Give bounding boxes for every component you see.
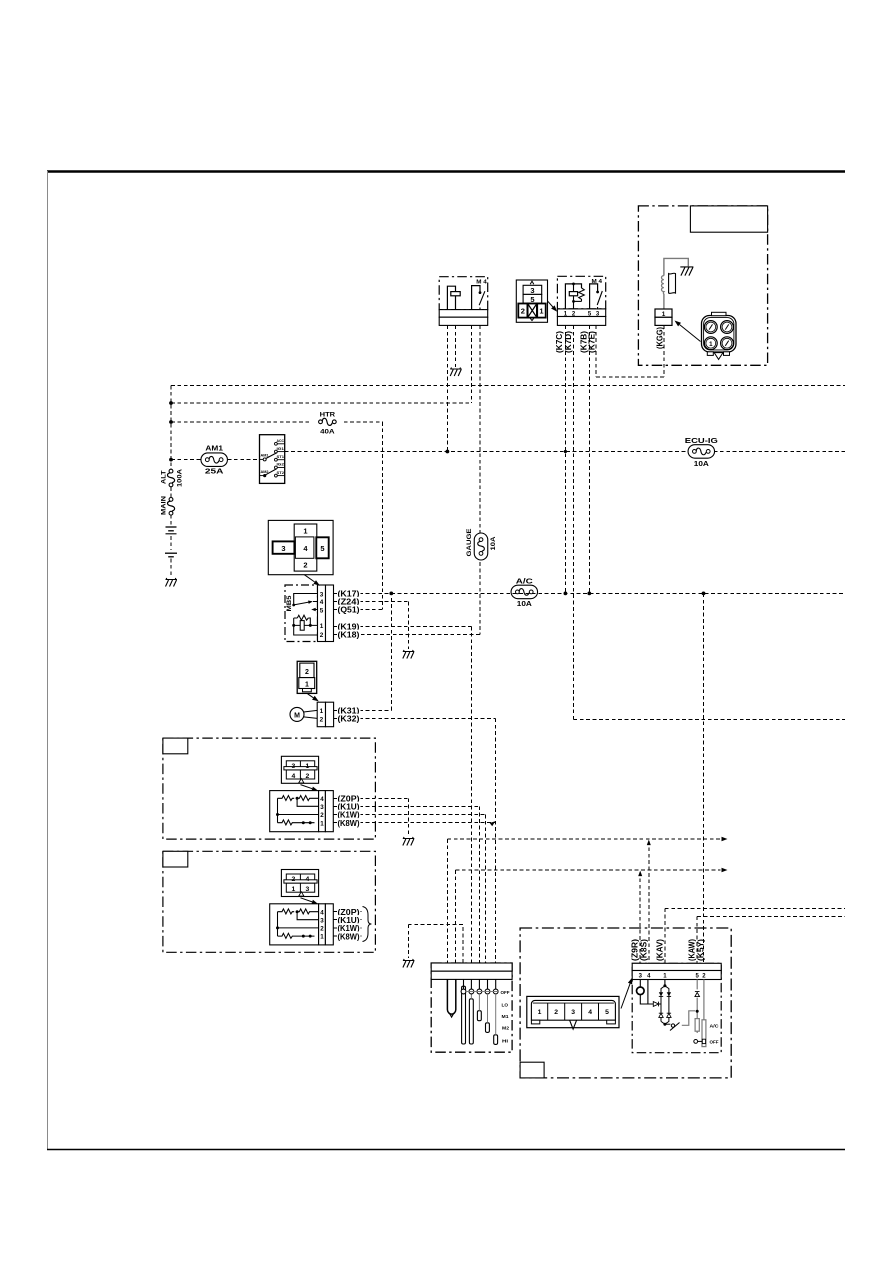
svg-text:2: 2: [320, 632, 324, 639]
blower resistor elements: [278, 909, 295, 914]
ground igniter: [680, 267, 693, 276]
ignition switch terminals: [275, 442, 278, 445]
blower resistor elements: [278, 796, 295, 801]
connector J2 body: [268, 520, 333, 574]
blower resistor icon arrow: [301, 785, 313, 789]
junction arrow pin4 riser: [648, 841, 650, 963]
wire AM1 feed y=459.6: [171, 459, 260, 461]
page frame top border: [47, 170, 845, 172]
label Q51: [337, 605, 361, 614]
svg-text:3: 3: [320, 591, 324, 598]
blower resistor box corner tab: [163, 738, 188, 754]
wire IG1 output y=451.5: [285, 451, 845, 453]
relay M4 right switch contact: [590, 284, 598, 309]
label K8W: [337, 818, 361, 827]
fuse AM1 25A: [201, 453, 228, 467]
ground blower switch: [403, 959, 415, 968]
connector J1 body: [516, 280, 547, 322]
label K19: [337, 622, 361, 631]
label K8W resistor2: [337, 932, 361, 941]
wire Z0P resistor1 pin4 to ground: [334, 798, 409, 836]
svg-text:3: 3: [306, 886, 310, 893]
connector J2 arrow to MB5: [304, 575, 314, 582]
svg-text:3: 3: [530, 286, 534, 295]
svg-text:(K32): (K32): [338, 714, 360, 724]
label K1U: [337, 802, 361, 811]
wire K18 MB5 pin2: [334, 633, 341, 635]
svg-text:2: 2: [306, 773, 310, 780]
panel A/C switch: [703, 980, 705, 1020]
wire battery link dashes: [170, 536, 172, 577]
connector J2 cell 5: [316, 537, 328, 558]
relay M4 right pin bar: [557, 309, 605, 317]
svg-text:(K7D): (K7D): [563, 331, 573, 353]
blower switch box: [431, 963, 512, 1052]
svg-text:4: 4: [320, 796, 324, 803]
A/C control panel bar: [632, 963, 721, 970]
svg-text:1: 1: [320, 820, 324, 827]
wire Q51 MB5 pin5: [334, 609, 383, 611]
connector J3 arrow to clutch: [308, 694, 314, 698]
fuse GAUGE 10A: [474, 533, 488, 560]
svg-text:4: 4: [320, 909, 324, 916]
junction arrow pin3 riser: [639, 872, 641, 963]
clutch pin block: [317, 702, 325, 727]
wire blower OFF-a to A/C panel pin4 and offpage arrow: [447, 838, 720, 840]
relay M4 left pin bar: [439, 310, 488, 318]
svg-text:3: 3: [281, 544, 285, 553]
svg-text:5: 5: [605, 1009, 609, 1016]
svg-text:ACC: ACC: [277, 439, 285, 443]
label K17: [337, 589, 361, 598]
wire relay-left pin1 to IG1 line: [446, 325, 448, 451]
svg-text:LO: LO: [502, 1002, 509, 1007]
svg-text:25A: 25A: [205, 469, 224, 476]
svg-text:2: 2: [320, 926, 324, 933]
svg-text:IG2: IG2: [277, 463, 285, 467]
relay MB5 box: [285, 585, 318, 642]
wire K5Y to A/C panel pin2: [703, 593, 705, 963]
blower switch connector bar: [431, 963, 512, 971]
connector J1 top caret: [530, 281, 534, 284]
wire K7E relay pin3 to igniter KGG: [596, 325, 664, 377]
label K31: [337, 706, 361, 715]
svg-text:(KGG): (KGG): [655, 327, 665, 349]
relay MB5 coil capacitor: [294, 618, 311, 625]
blower resistor element box: [270, 791, 319, 832]
wire Z24 MB5 pin4 to ground: [334, 602, 409, 650]
A/C control panel box: [632, 963, 721, 1052]
junction dot x=565.4 y=451.5: [564, 450, 567, 453]
wire KAV A/C panel pin1 to right edge: [665, 908, 845, 963]
connector J4 5-pin body: [527, 996, 619, 1027]
noise filter core: [669, 273, 676, 293]
connector J1 cell X: [528, 304, 537, 318]
ignition switch arm AM1-IG1: [266, 453, 277, 459]
svg-text:ALT: ALT: [161, 471, 168, 485]
wire K7B relay pin5 to A/C line: [588, 325, 590, 593]
arrow K8W junction: [490, 821, 496, 826]
blower switch finger LO: [469, 999, 473, 1044]
connector J1 bottom caret: [530, 318, 534, 321]
blower switch finger M1: [477, 1011, 481, 1021]
connector J1 arrow to relay: [548, 301, 553, 307]
svg-text:4: 4: [588, 1009, 592, 1016]
connector J3 body: [297, 661, 317, 693]
fusible link MAIN: [169, 498, 173, 502]
svg-text:ST2: ST2: [277, 471, 285, 475]
fuse ECU-IG 10A: [688, 445, 715, 459]
svg-text:AM1: AM1: [205, 446, 223, 453]
svg-text:2: 2: [305, 669, 309, 676]
ground Z24: [403, 650, 415, 659]
label K32: [337, 714, 361, 723]
svg-text:1: 1: [538, 1009, 542, 1016]
wire K1W resistor2 stub: [334, 927, 362, 929]
svg-text:HI: HI: [502, 1038, 508, 1043]
igniter box: [638, 206, 767, 365]
junction dot A/C-K5Y: [702, 592, 706, 596]
svg-text:1: 1: [709, 341, 713, 348]
blower switch wiper loop: [447, 979, 455, 1014]
wire K1W resistor1 pin2 to blower switch: [334, 815, 486, 964]
page frame bottom border: [47, 1149, 845, 1151]
wire KGG connector to box edge: [663, 325, 665, 377]
svg-text:(K8S): (K8S): [638, 939, 648, 961]
relay M4 left coil element: [447, 286, 455, 309]
svg-text:3: 3: [292, 763, 296, 770]
svg-text:100A: 100A: [177, 469, 184, 487]
wire K7C relay pin1 to A/C line: [564, 325, 566, 593]
junction dot x=447.4 y=451.5: [446, 450, 450, 454]
wire K19 MB5 pin1 to blower switch: [334, 627, 472, 964]
svg-text:1: 1: [539, 307, 543, 316]
blower switch finger M2: [486, 1023, 490, 1033]
noise filter coil: [664, 258, 688, 308]
svg-text:10A: 10A: [517, 601, 532, 608]
svg-text:4: 4: [320, 599, 324, 606]
svg-text:M: M: [294, 713, 300, 720]
connector J1 cell 3: [523, 285, 542, 294]
svg-text:(K7E): (K7E): [587, 331, 597, 353]
svg-text:(K8W): (K8W): [338, 818, 360, 828]
wire HTR feed y=422: [171, 421, 383, 423]
blower resistor box corner tab: [163, 851, 188, 867]
blower resistor connector icon: [281, 870, 318, 897]
wire K17 A/C feed line y=593.4: [334, 592, 846, 594]
label K1U resistor2: [337, 915, 361, 924]
fuse A/C 10A: [511, 585, 538, 599]
label K1W resistor2: [337, 923, 361, 932]
label Z0P: [337, 794, 361, 803]
panel illumination bulb: [639, 980, 641, 988]
blower switch finger HI: [494, 1035, 498, 1045]
battery: [166, 526, 177, 528]
brace resistor2 wires: [363, 907, 372, 942]
wire relay feed y=403: [171, 402, 472, 404]
wire Z0P resistor2 stub: [334, 911, 362, 913]
wire blower OFF-b to A/C panel pin3 and offpage arrow: [456, 869, 721, 871]
wire K8W resistor2 stub: [334, 935, 362, 937]
node B+ vertical bus x=171: [170, 386, 172, 525]
relay M4 right box: [557, 276, 605, 309]
svg-text:3: 3: [571, 1009, 575, 1016]
wire relay-left pin4 to GAUGE fuse and K18: [334, 325, 481, 634]
wire relay-left pin3 to y=403: [471, 325, 473, 403]
svg-text:2: 2: [320, 812, 324, 819]
svg-text:ST1: ST1: [277, 455, 285, 459]
label K18: [337, 630, 361, 639]
svg-text:1: 1: [305, 682, 309, 689]
ignition switch arm AM2-IG2: [266, 469, 277, 475]
label Z0P resistor2: [337, 907, 361, 916]
blower resistor connector icon: [281, 756, 318, 783]
svg-text:1: 1: [292, 886, 296, 893]
blower switch contacts: [463, 979, 465, 989]
blower resistor outer box: [163, 738, 376, 839]
connector J2 middle column: [294, 524, 317, 571]
wire K1U resistor1 pin3 to blower switch: [334, 806, 480, 963]
ignition switch AM1 contact: [263, 458, 266, 461]
relay M4 right coil with resistor: [565, 284, 581, 309]
A/C amplifier outer box: [520, 928, 731, 1078]
svg-text:GAUGE: GAUGE: [466, 528, 473, 557]
svg-text:(KAV): (KAV): [654, 939, 664, 961]
connector J1 cell 2: [518, 304, 527, 318]
panel pin4 wire and diode: [648, 980, 653, 1005]
wire KAW A/C panel pin5 to right edge: [697, 916, 845, 963]
wire blower OFF contact to ground: [408, 924, 463, 963]
junction dot K17-K31: [389, 592, 393, 596]
svg-text:5: 5: [320, 544, 324, 553]
svg-text:40A: 40A: [320, 429, 335, 436]
wire K8W resistor1 pin1: [334, 822, 496, 824]
ground battery: [166, 578, 178, 587]
blower resistor element box: [270, 904, 319, 945]
page frame left border: [47, 171, 49, 1150]
svg-text:3: 3: [320, 917, 324, 924]
svg-text:(K8W): (K8W): [338, 931, 360, 941]
svg-text:3: 3: [320, 804, 324, 811]
junction dots on bus x=171: [169, 401, 173, 405]
relay MB5 switch: [294, 594, 318, 605]
label Z24: [337, 597, 361, 606]
wire K32 clutch pin2 to blower HI: [334, 718, 496, 963]
svg-text:4: 4: [292, 773, 296, 780]
svg-text:1: 1: [320, 623, 324, 630]
wire relay-left pin2 to ground: [455, 325, 457, 367]
ground Z0P: [403, 837, 415, 846]
svg-text:MB5: MB5: [286, 595, 293, 612]
panel mode switch: [665, 1023, 671, 1025]
relay M4 left box: [439, 277, 488, 310]
svg-text:A/C: A/C: [516, 578, 533, 585]
panel pin5 wire diode resistor: [696, 980, 698, 1034]
svg-text:2: 2: [554, 1009, 558, 1016]
svg-text:ECU-IG: ECU-IG: [685, 438, 719, 445]
fusible link ALT 100A: [169, 469, 173, 473]
igniter label box: [690, 206, 767, 232]
svg-text:(K5Y): (K5Y): [695, 939, 705, 961]
svg-text:10A: 10A: [490, 536, 497, 550]
svg-text:IG1: IG1: [277, 447, 285, 451]
wire Q51 riser x=382.6: [382, 422, 384, 610]
svg-text:4: 4: [306, 876, 310, 883]
svg-text:2: 2: [320, 717, 324, 724]
svg-text:1: 1: [320, 708, 324, 715]
ignition switch SW1 body: [260, 435, 285, 484]
connector J1 cell 5: [523, 294, 542, 303]
relay MB5 pin strip: [318, 585, 326, 642]
wire K1U resistor2 stub: [334, 919, 362, 921]
connector distributor round: [702, 316, 737, 353]
panel pin1 LED branches: [664, 980, 666, 986]
svg-text:10A: 10A: [694, 461, 709, 468]
svg-text:M2: M2: [502, 1025, 510, 1030]
svg-text:M1: M1: [502, 1014, 510, 1019]
blower switch finger OFF: [462, 986, 466, 1044]
wire main feed y=385.5: [171, 385, 845, 387]
svg-text:OFF: OFF: [710, 1039, 719, 1044]
svg-text:M 4: M 4: [476, 280, 487, 286]
wire K31 clutch pin1 to K17 junction: [334, 593, 392, 710]
svg-text:A/C: A/C: [710, 1023, 719, 1028]
motor M magnetic clutch: [290, 707, 304, 721]
svg-text:OFF: OFF: [501, 990, 510, 995]
blower resistor icon arrow: [301, 898, 313, 902]
svg-text:1: 1: [303, 526, 307, 535]
connector J2 cell 3: [273, 541, 295, 553]
ignition switch AM2 contact: [263, 474, 266, 477]
svg-text:(Q51): (Q51): [338, 605, 360, 615]
connector J2 cell 4 row: [295, 537, 314, 558]
connector J1 cell 1: [537, 304, 546, 318]
svg-text:2: 2: [303, 561, 307, 570]
wire K7D relay pin2 to right edge: [573, 325, 845, 719]
connector J4 arrow to panel: [621, 984, 630, 1009]
svg-text:2: 2: [292, 876, 296, 883]
blower resistor outer box: [163, 851, 376, 952]
svg-text:MAIN: MAIN: [161, 496, 168, 515]
ground relay-left: [450, 368, 462, 377]
arrow distributor to KGG: [680, 325, 701, 342]
svg-text:1: 1: [306, 763, 310, 770]
svg-text:2: 2: [521, 307, 525, 316]
fusible link HTR 40A: [311, 416, 343, 429]
relay M4 left switch contact: [472, 286, 480, 310]
svg-text:(K18): (K18): [338, 630, 360, 640]
A/C amplifier corner tab: [520, 1062, 544, 1078]
svg-text:5: 5: [320, 607, 324, 614]
label K1W: [337, 810, 361, 819]
connector KGG body: [655, 309, 672, 317]
svg-text:HTR: HTR: [320, 412, 336, 419]
svg-text:1: 1: [320, 934, 324, 941]
